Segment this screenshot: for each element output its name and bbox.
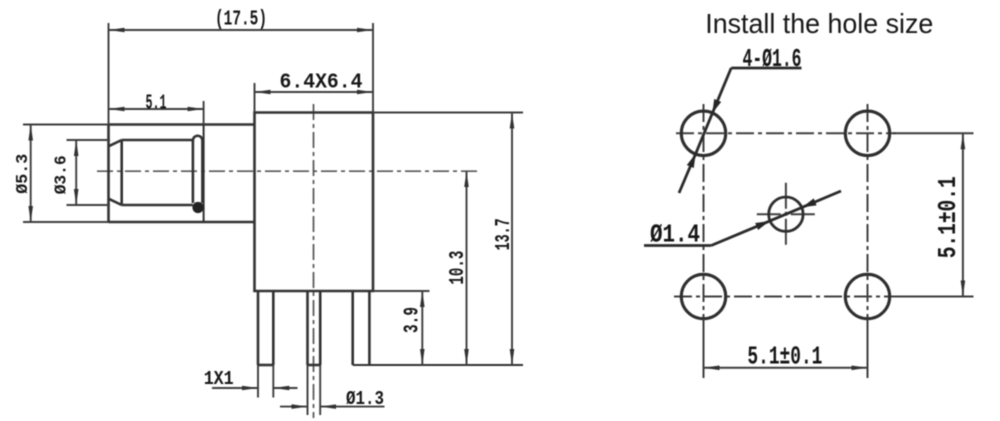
- svg-text:Install the hole size: Install the hole size: [705, 8, 933, 39]
- svg-text:10.3: 10.3: [447, 251, 470, 285]
- svg-text:1X1: 1X1: [204, 368, 234, 390]
- svg-text:13.7: 13.7: [493, 218, 516, 250]
- svg-text:5.1±0.1: 5.1±0.1: [933, 176, 963, 258]
- svg-text:5.1: 5.1: [146, 93, 167, 116]
- svg-text:6.4X6.4: 6.4X6.4: [280, 72, 363, 95]
- svg-text:(17.5): (17.5): [215, 9, 267, 32]
- svg-text:Ø1.4: Ø1.4: [650, 220, 700, 250]
- svg-text:5.1±0.1: 5.1±0.1: [747, 342, 822, 372]
- svg-text:Ø1.3: Ø1.3: [346, 388, 384, 410]
- svg-text:3.9: 3.9: [402, 307, 425, 333]
- svg-text:Ø3.6: Ø3.6: [53, 155, 72, 194]
- svg-text:4-Ø1.6: 4-Ø1.6: [743, 44, 802, 74]
- svg-text:Ø5.3: Ø5.3: [14, 154, 33, 194]
